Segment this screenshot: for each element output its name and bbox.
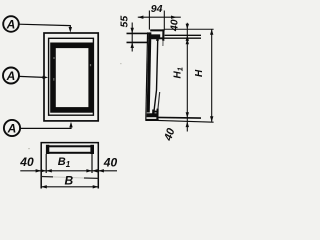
section top rebate step (cut, black) — [159, 37, 163, 39]
section bottom edge bar — [146, 119, 159, 121]
front view second rectangle — [49, 38, 94, 115]
H dimension line — [210, 29, 213, 122]
section label A3 circle — [4, 120, 20, 136]
svg-text:A: A — [7, 122, 17, 136]
55 extension line upper — [127, 32, 150, 34]
section top lip head (cut, black) — [156, 36, 158, 41]
scan speckles — [53, 57, 91, 81]
section lip line — [154, 41, 158, 113]
front view outer rectangle — [44, 33, 98, 121]
section web wall (cut, black) — [147, 32, 152, 112]
leader A1 — [19, 24, 72, 32]
svg-text:B1: B1 — [58, 156, 71, 169]
55 dimension line — [131, 23, 134, 52]
svg-text:40: 40 — [19, 155, 34, 169]
top right extension line — [165, 28, 214, 30]
plan extension line left — [45, 154, 47, 173]
svg-text:H: H — [194, 69, 205, 77]
flange bottom extension — [161, 37, 201, 39]
svg-text:94: 94 — [151, 3, 163, 15]
svg-text:A: A — [6, 69, 16, 83]
svg-text:A: A — [6, 18, 16, 32]
svg-text:40: 40 — [168, 19, 180, 32]
section bottom flange (cut, black) — [147, 113, 159, 117]
svg-text:40: 40 — [162, 126, 178, 143]
plan view outer rectangle — [41, 143, 98, 189]
section right edge bottom bar — [156, 109, 158, 121]
section label A1 circle — [3, 16, 19, 32]
55 extension line lower — [127, 41, 149, 43]
plan view head band — [48, 146, 92, 153]
section top edge bar — [150, 29, 164, 31]
section left edge — [146, 32, 148, 121]
section profile (skewed slightly like the scan) — [146, 29, 165, 121]
dimension line B — [41, 185, 98, 188]
svg-text:40: 40 — [103, 156, 118, 170]
dimension line 40 B1 40 — [20, 169, 117, 172]
plan extension line right — [91, 154, 93, 173]
leader A2 — [19, 76, 48, 79]
94 dimension line — [138, 16, 181, 19]
bottom flange extension — [158, 116, 202, 119]
section bottom rebate step (cut, black) — [154, 111, 158, 113]
plan view right jamb bar — [90, 145, 94, 154]
section right edge line upper stub — [162, 40, 164, 46]
front view thick frame band — [53, 45, 91, 110]
svg-text:H1: H1 — [173, 67, 185, 78]
dimension line 40top H1 40bottom — [186, 23, 189, 132]
leader A3 — [20, 122, 73, 129]
section label A2 circle — [3, 68, 19, 84]
section bottom lip head (cut, black) — [152, 110, 154, 115]
bottom edge extension — [158, 120, 214, 122]
section top flange (cut, black) — [148, 34, 160, 39]
plan view bottom edge (faded in middle) — [41, 176, 53, 178]
94 extension line left — [148, 11, 150, 30]
svg-text:B: B — [65, 174, 74, 188]
flange top extension — [165, 34, 201, 36]
section right edge top bar — [162, 29, 164, 41]
section bottom left corner — [146, 119, 149, 121]
plan view left jamb bar — [46, 145, 49, 154]
section right edge line lower — [158, 92, 160, 109]
94 extension line right — [163, 11, 165, 31]
svg-text:55: 55 — [118, 16, 130, 28]
